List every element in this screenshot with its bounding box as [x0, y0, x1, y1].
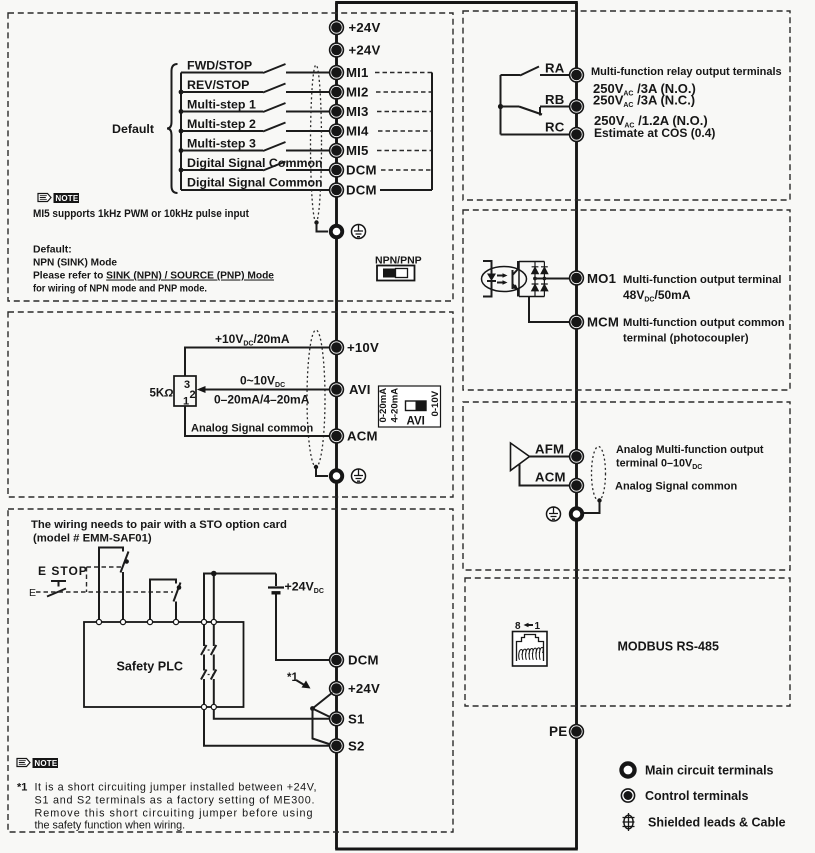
dashed wire DCM1 to NPN rail [381, 169, 432, 171]
svg-text:1: 1 [183, 396, 189, 408]
svg-text:0-20mA: 0-20mA [378, 388, 389, 423]
drive body outline: right bus [575, 3, 578, 850]
terminal ACM (right) [570, 479, 584, 493]
terminal MI1 [330, 66, 344, 80]
terminal DCM (STO) [330, 653, 344, 667]
dashed box: STO section [8, 509, 453, 832]
contact blade A2 [201, 670, 207, 680]
svg-text:FWD/STOP: FWD/STOP [187, 59, 252, 73]
photocoupler light arrowhead 1 [503, 273, 508, 277]
arrowhead *1 [302, 681, 311, 689]
svg-text:Digital Signal Common: Digital Signal Common [187, 156, 323, 170]
dashed wire MI1 to NPN rail [375, 72, 432, 74]
photocoupler left lead bottom [483, 290, 492, 297]
wire RC segment [501, 134, 570, 136]
contact blade A1 [201, 645, 207, 655]
phototransistor emitter arrowhead [513, 284, 519, 290]
svg-text:Shielded leads & Cable: Shielded leads & Cable [648, 816, 786, 830]
photocoupler light arrow 1 [497, 275, 505, 277]
photocoupler light arrow 2 [497, 282, 505, 284]
svg-text:Default:: Default: [33, 245, 72, 256]
terminal +24V (STO) [330, 682, 344, 696]
terminal DCM1 [330, 163, 344, 177]
svg-text:PE: PE [549, 724, 567, 739]
switch Digital Signal Common [263, 162, 286, 171]
switch blade loop 1 [121, 552, 129, 573]
photocoupler left lead top [483, 261, 492, 274]
legend main terminal symbol [621, 763, 634, 776]
bridge diode column 1 [531, 262, 538, 297]
dashed wire MI3 to NPN rail [377, 111, 432, 113]
RJ45 pins squiggle [519, 647, 544, 659]
dashed link estop upper [87, 566, 122, 568]
switch NPN/PNP white half [396, 269, 408, 278]
bridge rectifier frame [519, 262, 544, 297]
svg-text:Safety PLC: Safety PLC [117, 660, 184, 674]
svg-text:the safety function when wirin: the safety function when wiring. [35, 820, 186, 832]
svg-text:4-20mA: 4-20mA [390, 388, 401, 423]
dashed box: relay output section [463, 11, 790, 200]
node dot MI5 branch [179, 148, 184, 153]
svg-text:Multi-function output common: Multi-function output common [623, 317, 785, 329]
terminal MI3 [330, 105, 344, 119]
svg-text:S1: S1 [348, 711, 365, 726]
feedback loop 2 [150, 580, 176, 623]
wire RB segment [501, 106, 570, 108]
terminal AFM [570, 450, 584, 464]
dashed wire MI5 to NPN rail [377, 150, 432, 152]
arrowhead AVI into pot [197, 386, 206, 393]
switch REV/STOP [263, 84, 286, 93]
contact link dashed 2 [203, 674, 216, 676]
PLC bottom pin B [211, 704, 216, 709]
main terminal ground B2 [331, 470, 343, 482]
svg-text:RA: RA [545, 61, 565, 76]
node dot relay rail [498, 104, 503, 109]
wire shield drain to ground B1 [317, 223, 329, 232]
wire channel A to S2 [204, 710, 330, 746]
PLC pin 4 [173, 619, 178, 624]
brace Default [167, 64, 178, 193]
contact blade B2 [211, 670, 217, 680]
shielded ground symbol R3 [547, 507, 561, 521]
wire Multi-step 3 to MI5 [181, 150, 330, 152]
wire bridge to MCM [529, 297, 570, 323]
contact bar RB [539, 107, 541, 116]
svg-text:250VAC /3A (N.C.): 250VAC /3A (N.C.) [593, 93, 695, 110]
wire channel A to supply [204, 574, 276, 623]
terminal S2 [330, 739, 344, 753]
terminal MI5 [330, 144, 344, 158]
svg-text:1: 1 [535, 621, 541, 632]
svg-text:48VDC/50mA: 48VDC/50mA [623, 288, 691, 304]
switch NPN/PNP black knob [383, 269, 396, 278]
svg-text:REV/STOP: REV/STOP [187, 78, 249, 92]
terminal DCM2 [330, 183, 344, 197]
AVI switch block frame [379, 386, 441, 427]
terminal MCM [570, 315, 584, 329]
svg-text:+10V: +10V [347, 340, 379, 355]
terminal +24V (1) [330, 21, 344, 35]
drive body outline: bottom edge [335, 848, 578, 851]
wire NPN rail vertical [431, 73, 433, 191]
svg-text:+24V: +24V [349, 43, 381, 58]
node dot jumper [310, 706, 315, 711]
node dot supply junction [211, 571, 217, 577]
node dot blade 2 [177, 585, 182, 590]
node dot MI3 branch [179, 109, 184, 114]
switch blade loop 2 [174, 583, 181, 602]
svg-text:DCM: DCM [346, 163, 377, 178]
e-stop button symbol [51, 581, 66, 587]
svg-text:RC: RC [545, 120, 565, 135]
svg-text:*1: *1 [17, 782, 27, 794]
switch NPN/PNP body [377, 266, 415, 281]
svg-text:Analog Signal common: Analog Signal common [191, 423, 314, 435]
svg-text:DCM: DCM [346, 183, 377, 198]
wire shield drain R3 [584, 501, 600, 514]
svg-text:It is a short circuiting jumpe: It is a short circuiting jumper installe… [35, 782, 317, 794]
node dot shield drain R3 [597, 498, 601, 502]
RJ45 jack inner profile [517, 635, 544, 662]
svg-text:Please refer to SINK (NPN) / S: Please refer to SINK (NPN) / SOURCE (PNP… [33, 271, 274, 282]
photocoupler LED [487, 274, 496, 282]
note icon B3 [17, 758, 58, 768]
svg-text:Multi-step 3: Multi-step 3 [187, 137, 256, 151]
jumper +24V to S1 [313, 693, 333, 718]
svg-text:terminal 0–10VDC: terminal 0–10VDC [616, 458, 702, 472]
svg-text:Control terminals: Control terminals [645, 789, 749, 803]
shielded ground symbol B2 [352, 469, 366, 483]
terminal RB [570, 100, 584, 114]
main terminal ground R3 [571, 508, 583, 520]
battery plate long [268, 586, 284, 588]
svg-text:MO1: MO1 [587, 271, 616, 286]
svg-text:Multi-function relay output te: Multi-function relay output terminals [591, 66, 782, 78]
wire channel B to S1 [214, 710, 330, 719]
phototransistor emitter [513, 284, 519, 297]
shield ellipse digital inputs [311, 65, 322, 222]
wire AFM [530, 456, 570, 458]
svg-text:ACM: ACM [535, 470, 566, 485]
terminal MI4 [330, 124, 344, 138]
shielded ground symbol B1 [352, 225, 366, 239]
svg-text:MI4: MI4 [346, 124, 369, 139]
terminal +10V [330, 341, 344, 355]
legend control terminal symbol [621, 789, 634, 802]
node dot MI2 branch [179, 90, 184, 95]
terminal MI2 [330, 85, 344, 99]
svg-text:*1: *1 [287, 672, 298, 684]
svg-text:Default: Default [112, 122, 154, 136]
terminal PE [570, 725, 584, 739]
svg-text:Remove this short circuiting j: Remove this short circuiting jumper befo… [35, 808, 313, 820]
svg-text:Digital Signal Common: Digital Signal Common [187, 176, 323, 190]
arrowhead 8 to 1 [524, 623, 529, 628]
svg-text:Main circuit terminals: Main circuit terminals [645, 764, 774, 778]
contact blade B1 [211, 645, 217, 655]
svg-text:Multi-step 2: Multi-step 2 [187, 117, 256, 131]
node dot blade 1 [124, 559, 129, 564]
svg-text:MI2: MI2 [346, 85, 369, 100]
dashed link estop lower [36, 591, 173, 593]
arrow *1 to jumper [296, 680, 306, 686]
phototransistor base bar [512, 270, 514, 289]
svg-text:Multi-step 1: Multi-step 1 [187, 98, 256, 112]
svg-text:NPN (SINK) Mode: NPN (SINK) Mode [33, 258, 117, 269]
wire ACM common [185, 406, 330, 436]
arrow 8 to 1 [527, 624, 534, 626]
potentiometer 5K body [174, 376, 196, 406]
dashed box: digital inputs section [8, 13, 453, 301]
svg-text:+24V: +24V [349, 20, 381, 35]
wire REV/STOP to MI2 [181, 91, 330, 93]
wire Multi-step 2 to MI4 [181, 130, 330, 132]
svg-text:MI1: MI1 [346, 65, 369, 80]
terminal RC [570, 128, 584, 142]
terminal +24V (2) [330, 43, 344, 57]
AVI switch black knob [416, 401, 427, 411]
dashed box: analog input section [8, 312, 453, 497]
svg-text:The wiring needs to pair with: The wiring needs to pair with a STO opti… [31, 519, 287, 531]
switch Multi-step 2 [263, 123, 286, 132]
svg-text:MI5 supports 1kHz PWM or 10kHz: MI5 supports 1kHz PWM or 10kHz pulse inp… [33, 208, 249, 220]
photocoupler LED cathode bar [487, 281, 496, 290]
main terminal ground B1 [331, 226, 343, 238]
drive body outline: top edge [335, 1, 578, 4]
photocoupler ellipse [482, 267, 527, 292]
shield ellipse analog input [307, 330, 325, 467]
wire channel B to supply [213, 574, 215, 623]
PLC pin 6 [211, 619, 216, 624]
switch Multi-step 3 [263, 142, 286, 151]
svg-text:+24V: +24V [348, 681, 380, 696]
svg-text:AVI: AVI [349, 382, 371, 397]
dashed box: photocoupler output section [463, 210, 790, 390]
Safety PLC box [84, 622, 244, 707]
terminal S1 [330, 712, 344, 726]
bridge diode column 2 [541, 262, 548, 297]
svg-text:0-10V: 0-10V [430, 390, 441, 416]
svg-text:E: E [29, 587, 36, 599]
svg-text:2: 2 [190, 389, 196, 401]
note icon B1 [38, 193, 79, 203]
svg-text:MI3: MI3 [346, 104, 369, 119]
svg-text:terminal (photocoupler): terminal (photocoupler) [623, 333, 749, 345]
svg-text:for wiring of NPN mode and PNP: for wiring of NPN mode and PNP mode. [33, 284, 207, 295]
PLC bottom pin A [201, 704, 206, 709]
wire Digital Signal Common to DCM2 [181, 189, 330, 191]
feedback loop 1 [99, 548, 123, 623]
wire +10V supply [185, 348, 330, 377]
wire FWD/STOP to MI1 [181, 72, 330, 74]
battery plate short [272, 591, 281, 594]
terminal ACM [330, 429, 344, 443]
PLC pin 3 [147, 619, 152, 624]
AVI switch body [406, 401, 427, 411]
terminal AVI [330, 383, 344, 397]
svg-text:Multi-function output terminal: Multi-function output terminal [623, 274, 781, 286]
switch RB blade [519, 107, 542, 115]
svg-text:(model # EMM-SAF01): (model # EMM-SAF01) [33, 533, 152, 545]
svg-text:8: 8 [515, 621, 521, 632]
svg-text:S1 and S2 terminals as a facto: S1 and S2 terminals as a factory setting… [35, 795, 315, 807]
dashed box: analog output section [463, 402, 790, 570]
relay common rail [500, 75, 502, 135]
svg-text:DCM: DCM [348, 653, 379, 668]
svg-text:Analog Signal common: Analog Signal common [615, 481, 738, 493]
switch Multi-step 1 [263, 103, 286, 112]
shield ellipse analog output [592, 447, 606, 501]
battery +24Vdc top lead [275, 574, 277, 587]
legend shield symbol [623, 813, 635, 831]
switch RA blade [520, 67, 539, 76]
node dot MI4 branch [179, 129, 184, 134]
wire Multi-step 1 to MI3 [181, 111, 330, 113]
jumper S1 to S2 [313, 709, 331, 745]
phototransistor collector [513, 261, 519, 275]
wire battery to DCM [276, 595, 330, 661]
svg-text:5KΩ: 5KΩ [150, 388, 174, 400]
PLC pin 5 [201, 619, 206, 624]
e-stop blade [47, 589, 66, 597]
dashed link estop vertical [86, 567, 88, 592]
wire ACM output common [520, 464, 570, 486]
svg-text:Analog Multi-function output: Analog Multi-function output [616, 444, 764, 456]
svg-text:S2: S2 [348, 738, 365, 753]
wire RA segment [501, 74, 570, 76]
contact wires inside PLC [204, 625, 214, 705]
svg-text:0–20mA/4–20mA: 0–20mA/4–20mA [214, 393, 310, 407]
wire left rail (inputs common) [180, 73, 182, 191]
terminal RA [570, 68, 584, 82]
dashed wire MI2 to NPN rail [376, 91, 432, 93]
switch FWD/STOP [263, 64, 286, 73]
node dot DCM branch [179, 168, 184, 173]
wire AVI input [204, 389, 330, 391]
photocoupler light arrowhead 2 [503, 280, 508, 284]
svg-text:RB: RB [545, 92, 564, 107]
svg-text:MCM: MCM [587, 315, 619, 330]
node dot shield drain B2 [314, 465, 318, 469]
wire DCM2 to NPN rail [380, 189, 432, 191]
PLC pin 2 [120, 619, 125, 624]
terminal MO1 [570, 271, 584, 285]
wire shield drain to ground B2 [316, 467, 328, 476]
contact link dashed 1 [203, 649, 216, 651]
node dot shield drain B1 [314, 220, 318, 224]
AFM amplifier triangle [511, 443, 530, 471]
PLC pin 1 [96, 619, 101, 624]
drive body outline: left bus [335, 3, 338, 850]
svg-text:AFM: AFM [535, 442, 564, 457]
dashed box: modbus section [465, 578, 790, 706]
svg-text:ACM: ACM [347, 429, 378, 444]
wire Digital Signal Common to DCM1 [181, 169, 330, 171]
svg-text:MI5: MI5 [346, 143, 369, 158]
svg-text:MODBUS RS-485: MODBUS RS-485 [618, 640, 719, 654]
svg-text:AVI: AVI [407, 416, 425, 428]
svg-text:E STOP: E STOP [38, 564, 88, 578]
wire bridge to MO1 [535, 278, 570, 280]
dashed wire MI4 to NPN rail [378, 130, 432, 132]
RJ45 jack outer [513, 632, 548, 667]
svg-text:Estimate at COS (0.4): Estimate at COS (0.4) [594, 126, 715, 140]
